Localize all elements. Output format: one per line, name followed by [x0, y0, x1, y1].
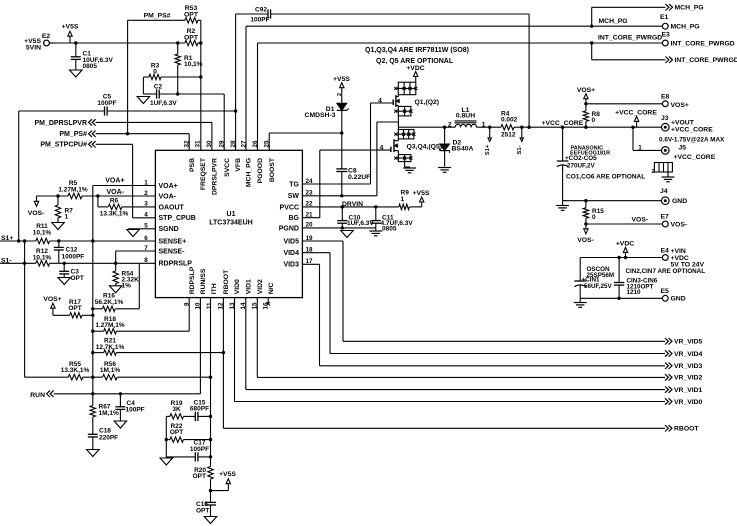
- svg-text:VR_VID1: VR_VID1: [674, 387, 703, 394]
- junction R2 right: [199, 41, 202, 44]
- capacitor CIN3-CIN6: [614, 258, 658, 299]
- wire VCC_CORE line: [529, 126, 662, 128]
- capacitor C11: [371, 207, 414, 233]
- label INT_CORE_PWRGD wire: [598, 34, 662, 41]
- wire VOS+ to E8: [586, 103, 663, 105]
- wire VOS- to E7: [586, 217, 663, 224]
- wire VID5 pin19: [302, 241, 665, 341]
- resistor R6: [98, 196, 155, 218]
- wire R16 riser: [115, 263, 139, 309]
- wire ITH riser pin11: [210, 298, 212, 491]
- resistor R22: [166, 423, 210, 442]
- svg-text:+VDC: +VDC: [616, 240, 634, 247]
- svg-text:CIN2,CIN7 ARE OPTIONAL: CIN2,CIN7 ARE OPTIONAL: [626, 268, 706, 275]
- wire RUN/SS riser pin10: [199, 298, 201, 394]
- junction MCH_PG branch: [590, 25, 593, 28]
- junction PM_PS#: [126, 132, 129, 135]
- junction S1+ tap: [488, 126, 491, 129]
- port VR_VID3: [665, 363, 703, 371]
- svg-text:1UF,6.3V: 1UF,6.3V: [347, 220, 374, 227]
- svg-text:1UF,6.3V: 1UF,6.3V: [150, 100, 177, 107]
- wire Q3 source to gnd: [405, 162, 410, 168]
- port VR_VID2: [665, 374, 703, 382]
- svg-text:1: 1: [65, 214, 69, 221]
- note Q1Q3Q4: [365, 47, 469, 54]
- resistor R3: [143, 63, 200, 80]
- svg-text:VID2: VID2: [257, 279, 264, 294]
- svg-text:1: 1: [638, 145, 642, 152]
- wire SGND pin5: [128, 228, 155, 230]
- wire VID4 pin18: [302, 253, 665, 354]
- svg-text:0: 0: [592, 117, 596, 124]
- node S1+ label: [1, 235, 13, 242]
- svg-text:VR_VID4: VR_VID4: [674, 351, 703, 358]
- junction C12 top: [57, 239, 60, 242]
- ground at C4: [114, 421, 127, 428]
- resistor R18: [93, 316, 189, 334]
- wire R53/R2 right vertical to FREQSET: [200, 20, 202, 150]
- svg-text:MCH_PG: MCH_PG: [675, 5, 704, 12]
- wire PGOOD arrow branch: [592, 43, 666, 60]
- wire PM_PS# vertical: [127, 20, 129, 133]
- power VOS+ at R17: [43, 296, 69, 315]
- svg-text:C12: C12: [66, 247, 78, 254]
- svg-text:VR_VID2: VR_VID2: [674, 375, 703, 382]
- resistor R8: [583, 104, 600, 127]
- svg-text:13.3K,1%: 13.3K,1%: [100, 211, 129, 218]
- resistor R1: [175, 43, 203, 94]
- wire TG net: [302, 103, 370, 184]
- resistor R5: [58, 180, 87, 198]
- resistor R67: [90, 404, 119, 435]
- svg-text:FREQSET: FREQSET: [200, 157, 207, 190]
- U1 left pin labels 1-8: [144, 179, 196, 267]
- svg-text:E2: E2: [42, 33, 51, 40]
- capacitor C5: [19, 94, 236, 116]
- resistor R20: [193, 467, 214, 481]
- svg-text:1M,1%: 1M,1%: [100, 367, 120, 374]
- wire left border vertical: [18, 111, 20, 241]
- svg-text:GND: GND: [671, 296, 686, 303]
- svg-text:INT_CORE_PWRGD: INT_CORE_PWRGD: [675, 57, 737, 64]
- svg-text:C92: C92: [255, 7, 267, 14]
- svg-text:+VOUT: +VOUT: [671, 120, 695, 127]
- svg-text:30: 30: [206, 140, 213, 148]
- svg-text:U1: U1: [227, 211, 236, 218]
- junction C17 ITH: [209, 455, 212, 458]
- port PM_DPRSLPVR: [34, 119, 211, 127]
- svg-text:E5: E5: [661, 288, 670, 295]
- resistor R21: [93, 338, 224, 356]
- wire +V5S rail: [56, 42, 185, 44]
- junction R8 top: [584, 102, 587, 105]
- svg-text:+VCC_CORE: +VCC_CORE: [674, 154, 716, 161]
- svg-text:VOS-: VOS-: [28, 210, 45, 217]
- Q3 drain pin cluster: [394, 130, 415, 139]
- svg-text:VOS-: VOS-: [632, 217, 649, 224]
- svg-text:10,1%: 10,1%: [184, 61, 203, 68]
- svg-text:Q1,(Q2): Q1,(Q2): [415, 99, 440, 106]
- power +V5S at R9: [413, 190, 430, 207]
- junction R7 top: [56, 194, 59, 197]
- svg-text:+V5S: +V5S: [62, 23, 79, 30]
- port RUN: [30, 391, 200, 399]
- label MCH_PG wire: [599, 18, 628, 25]
- power +V5S at D1: [333, 76, 350, 103]
- svg-text:0: 0: [592, 214, 596, 221]
- svg-text:2: 2: [337, 93, 343, 96]
- svg-text:VR_VID5: VR_VID5: [674, 339, 703, 346]
- svg-text:Q1,Q3,Q4 ARE IRF7811W (SO8): Q1,Q3,Q4 ARE IRF7811W (SO8): [365, 47, 469, 54]
- junction C8 SW: [340, 194, 343, 197]
- wire VOA- net: [37, 189, 156, 196]
- svg-text:SENSE-: SENSE-: [159, 248, 186, 255]
- svg-text:SGND: SGND: [159, 226, 179, 233]
- svg-text:VID1: VID1: [245, 279, 252, 294]
- wire MCH_PG net: [246, 26, 662, 150]
- svg-text:13.3K,1%: 13.3K,1%: [61, 367, 90, 374]
- inductor L1: [455, 107, 477, 127]
- resistor R15: [583, 201, 604, 224]
- resistor R2: [184, 28, 201, 46]
- port VR_VID4: [665, 350, 703, 358]
- U1 right pin labels 17-24: [279, 178, 313, 269]
- wire S1+ / SENSE+ line: [0, 240, 155, 242]
- ground at C3: [58, 278, 70, 285]
- svg-text:5VIN: 5VIN: [26, 44, 41, 51]
- svg-text:100PF: 100PF: [190, 446, 209, 453]
- wire SW node: [398, 126, 455, 128]
- svg-text:OPT: OPT: [184, 34, 199, 41]
- svg-text:VID5: VID5: [283, 238, 299, 245]
- port MCH_PG arrow: [666, 4, 704, 12]
- junction R1 top: [176, 41, 179, 44]
- resistor R7: [55, 196, 73, 223]
- svg-text:SENSE+: SENSE+: [159, 238, 187, 245]
- wire SENSE- pin7 jog: [116, 251, 156, 263]
- junction CIN3 top: [617, 256, 620, 259]
- svg-text:E1: E1: [660, 14, 669, 21]
- svg-text:1000PF: 1000PF: [62, 254, 85, 261]
- svg-text:E7: E7: [661, 213, 670, 220]
- terminal J4: [660, 188, 687, 205]
- wire VOA+ pin1: [93, 178, 156, 186]
- wire PM_STPCPU# to pin4: [133, 144, 156, 218]
- resistor R19: [166, 400, 195, 419]
- wire SW net: [302, 122, 398, 196]
- label OSCON: [587, 266, 615, 279]
- wire PGND pin20: [302, 227, 375, 229]
- capacitor C8: [336, 133, 370, 196]
- svg-text:VOS-: VOS-: [577, 237, 594, 244]
- ground at CO2: [556, 201, 569, 211]
- Q1 drain pin cluster: [394, 82, 417, 95]
- label CO optional: [566, 174, 645, 181]
- port VR_VID1: [665, 386, 703, 394]
- terminal J5: [662, 144, 716, 161]
- junction R1 bottom: [176, 92, 179, 95]
- svg-text:4: 4: [378, 97, 382, 104]
- svg-text:Q3,Q4,(Q5): Q3,Q4,(Q5): [407, 144, 443, 151]
- terminal E4: [661, 248, 705, 269]
- svg-text:0805: 0805: [83, 63, 98, 70]
- label CIN optional: [626, 268, 706, 275]
- wire PSB riser pin32: [188, 134, 190, 151]
- svg-text:INT_CORE_PWRGD: INT_CORE_PWRGD: [671, 40, 735, 47]
- svg-text:12.7K,1%: 12.7K,1%: [96, 344, 125, 351]
- wire R3 left down: [143, 77, 156, 94]
- Q1 source pin cluster: [394, 106, 412, 116]
- svg-text:PSB: PSB: [189, 158, 196, 172]
- ground at comp rail: [160, 458, 173, 465]
- J5 mating connector: [652, 163, 673, 178]
- junction R21 RBOOT riser: [222, 351, 225, 354]
- svg-text:J4: J4: [660, 188, 668, 195]
- resistor R53: [184, 5, 201, 23]
- svg-text:C2: C2: [154, 84, 163, 91]
- resistor R9: [399, 190, 422, 210]
- diode D1 CMDSH-3: [305, 103, 349, 133]
- wire S1- / RDPRSLP line: [0, 262, 155, 264]
- svg-text:0.22UF: 0.22UF: [348, 174, 370, 181]
- label PANASONIC: [570, 145, 610, 156]
- svg-text:VID4: VID4: [283, 250, 299, 257]
- ground at C10: [341, 231, 354, 238]
- wire SVCC riser pin29: [223, 94, 225, 150]
- junction S1- tap: [520, 126, 523, 129]
- port RBOOT: [665, 425, 699, 433]
- svg-text:PM_PS#: PM_PS#: [59, 131, 87, 138]
- terminal J3: [661, 115, 713, 134]
- svg-text:29: 29: [219, 140, 226, 148]
- svg-text:0.002: 0.002: [501, 117, 518, 124]
- svg-text:CO1,CO6 ARE OPTIONAL: CO1,CO6 ARE OPTIONAL: [566, 174, 645, 181]
- svg-text:VOA-: VOA-: [107, 189, 125, 196]
- node VOS- tap: [28, 196, 45, 217]
- wire MCH_PG arrow branch: [592, 7, 666, 26]
- svg-text:11: 11: [206, 302, 213, 309]
- wire PGOOD net: [258, 43, 663, 150]
- op-amp U1 LTC3734EUH body: [155, 150, 302, 297]
- svg-text:VFB: VFB: [235, 158, 242, 172]
- node S1- tap: [517, 127, 524, 154]
- svg-text:VOS+: VOS+: [671, 102, 689, 109]
- svg-text:OPT: OPT: [184, 11, 199, 18]
- label +VCC_CORE left: [542, 120, 584, 127]
- svg-text:56UF,25V: 56UF,25V: [584, 283, 612, 290]
- junction C5/VFB: [234, 109, 237, 112]
- wire bridge vertical: [25, 241, 69, 377]
- svg-text:SW: SW: [288, 193, 300, 200]
- junction C3 top: [62, 262, 65, 265]
- resistor R55: [61, 361, 90, 380]
- junction R6 jog: [96, 194, 99, 197]
- svg-text:2: 2: [652, 169, 655, 175]
- ground at C11: [369, 228, 382, 236]
- svg-text:BG: BG: [289, 215, 300, 222]
- label 2 at L1: [448, 122, 452, 129]
- junction R15 bottom: [584, 222, 587, 225]
- resistor R56: [83, 361, 211, 380]
- svg-text:OAOUT: OAOUT: [159, 204, 185, 211]
- svg-text:CMDSH-3: CMDSH-3: [305, 112, 336, 119]
- wire +VDC line to E4: [580, 257, 662, 259]
- capacitor C10: [337, 207, 374, 228]
- svg-text:MCH_PG: MCH_PG: [246, 158, 253, 187]
- U1 bottom pin labels 9-16: [184, 266, 275, 309]
- junction R15 top: [584, 199, 587, 202]
- terminal E3: [662, 32, 735, 48]
- junction bridge S1-: [23, 262, 26, 265]
- svg-text:31: 31: [195, 140, 202, 148]
- junction CO2 top: [561, 126, 564, 129]
- junction C10 top: [341, 205, 344, 208]
- svg-text:DPRSLPVR: DPRSLPVR: [212, 158, 219, 195]
- svg-text:100PF: 100PF: [126, 407, 145, 414]
- svg-text:LTC3734EUH: LTC3734EUH: [209, 219, 252, 226]
- junction CIN3 bottom: [617, 297, 620, 300]
- power VOS+ arrow: [577, 87, 595, 104]
- svg-text:2: 2: [448, 122, 452, 129]
- port INT_CORE_PWRGD arrow: [666, 57, 737, 65]
- svg-text:270UF,2V: 270UF,2V: [567, 162, 595, 169]
- wire TG gate Q1: [371, 97, 394, 104]
- junction BOOST D1: [340, 131, 343, 134]
- junction C92 riser: [527, 126, 530, 129]
- svg-text:E3: E3: [662, 32, 671, 39]
- svg-text:S1+: S1+: [485, 144, 491, 155]
- svg-text:OPT: OPT: [71, 275, 84, 282]
- svg-text:VID3: VID3: [283, 262, 299, 269]
- wire J5 branch: [633, 127, 662, 152]
- svg-text:SVCC: SVCC: [224, 158, 231, 177]
- capacitor CIN1: [574, 258, 612, 299]
- ground at R54: [109, 286, 122, 293]
- svg-text:BS40A: BS40A: [452, 146, 474, 153]
- svg-text:OPT: OPT: [193, 473, 206, 480]
- Q3 source pin cluster: [394, 155, 412, 162]
- diode D2: [440, 127, 474, 166]
- svg-text:VR_VID0: VR_VID0: [674, 399, 703, 406]
- capacitor C2: [150, 84, 224, 107]
- svg-text:1: 1: [482, 122, 486, 129]
- junction R56 ITH riser: [209, 376, 212, 379]
- svg-text:RBOOT: RBOOT: [223, 269, 230, 294]
- junction R21 bus: [91, 351, 94, 354]
- svg-text:0805: 0805: [382, 225, 397, 232]
- label 2 at D1: [337, 93, 343, 96]
- wire L1 to R4: [477, 122, 502, 129]
- svg-text:RDPSLP: RDPSLP: [189, 266, 196, 294]
- svg-text:+VCC_CORE: +VCC_CORE: [615, 109, 657, 116]
- svg-text:RUN/SS: RUN/SS: [200, 268, 207, 294]
- svg-text:+CO2-CO5: +CO2-CO5: [565, 155, 597, 162]
- junction R17 bus: [91, 314, 94, 317]
- svg-text:PM_STPCPU#: PM_STPCPU#: [40, 142, 87, 149]
- svg-text:E4: E4: [661, 248, 670, 255]
- wire VID0 pin13: [235, 298, 666, 402]
- svg-text:3K: 3K: [172, 406, 181, 413]
- ground at CIN1: [574, 298, 587, 307]
- ground at C2: [137, 97, 150, 104]
- svg-text:1210: 1210: [627, 289, 642, 296]
- wire left bus vertical: [92, 186, 94, 406]
- junction R18 bus: [91, 330, 94, 333]
- wire BOOST pin25: [269, 133, 342, 150]
- junction D2: [443, 126, 446, 129]
- junction R20 bottom: [209, 489, 212, 492]
- svg-text:PM_DPRSLPVR: PM_DPRSLPVR: [34, 120, 87, 127]
- resistor R16: [93, 293, 124, 312]
- svg-text:INT_CORE_PWRGD: INT_CORE_PWRGD: [598, 34, 662, 41]
- ground at Q3: [403, 168, 416, 173]
- capacitor CO2-CO5: [557, 127, 597, 201]
- svg-text:GND: GND: [672, 198, 687, 205]
- ground at J5 connector: [662, 177, 675, 182]
- label Q1: [415, 99, 440, 106]
- svg-text:+V5S: +V5S: [413, 190, 430, 197]
- port VR_VID5: [665, 338, 703, 346]
- svg-text:N/C: N/C: [268, 283, 275, 295]
- svg-text:TG: TG: [289, 181, 299, 188]
- junction C11 top: [374, 205, 377, 208]
- svg-text:+V5S: +V5S: [219, 471, 236, 478]
- capacitor C1: [71, 43, 114, 70]
- wire VID2 pin15: [257, 298, 665, 378]
- power +VDC arrow right: [616, 240, 634, 257]
- svg-text:OPT: OPT: [170, 429, 183, 436]
- label Q3: [407, 144, 443, 151]
- junction C4 top: [119, 392, 122, 395]
- wire comp left rail: [165, 416, 167, 458]
- resistor R54: [113, 263, 139, 289]
- junction R22 left: [165, 438, 168, 441]
- svg-text:VR_VID3: VR_VID3: [674, 363, 703, 370]
- svg-text:VOS-: VOS-: [671, 221, 688, 228]
- power +VCC_CORE arrow: [615, 109, 657, 127]
- svg-text:RBOOT: RBOOT: [674, 426, 699, 433]
- svg-text:1: 1: [401, 196, 405, 203]
- svg-text:PGOOD: PGOOD: [257, 158, 264, 183]
- terminal E2: [24, 33, 56, 52]
- wire DPRSLPVR riser pin30: [211, 122, 213, 150]
- port VR_VID0: [665, 398, 703, 406]
- svg-text:DRVIN: DRVIN: [342, 201, 363, 208]
- capacitor C16: [196, 491, 216, 517]
- junction RUN bus: [91, 392, 94, 395]
- junction S1+ bridge: [23, 239, 26, 242]
- ground at D2: [438, 168, 451, 173]
- svg-text:1%: 1%: [122, 283, 132, 290]
- terminal E7: [661, 213, 688, 228]
- svg-text:RDPRSLP: RDPRSLP: [159, 261, 193, 268]
- wire VFB riser pin28: [235, 14, 237, 150]
- svg-text:680PF: 680PF: [190, 406, 209, 413]
- svg-text:OPT: OPT: [68, 305, 81, 312]
- junction R8 bottom: [584, 126, 587, 129]
- wire CIN bottom rail: [580, 297, 662, 299]
- svg-text:J3: J3: [661, 115, 669, 122]
- resistor R17: [68, 299, 92, 318]
- node S1+ tap: [485, 127, 491, 155]
- svg-text:VID0: VID0: [234, 279, 241, 294]
- resistor R11: [33, 223, 52, 243]
- power +V5S at E2: [62, 23, 79, 43]
- capacitor C92: [236, 7, 529, 24]
- junction C15 ITH: [209, 415, 212, 418]
- ground at R7: [52, 223, 65, 230]
- svg-text:BOOST: BOOST: [269, 157, 276, 182]
